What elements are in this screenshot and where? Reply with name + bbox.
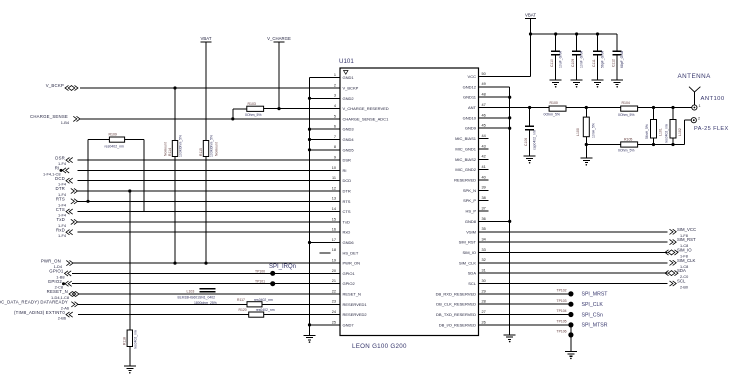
off-page connector (DC_DATA_READY) DATAREADY [0,300,78,311]
svg-text:18: 18 [332,248,336,252]
module U101 LEON-G100/G200 body [340,68,479,336]
svg-text:GND4: GND4 [343,137,355,142]
svg-text:HS_P: HS_P [466,209,477,214]
label ANT100 [701,96,725,102]
pin 30 SCL wire + number + name [468,279,667,286]
svg-text:GND3: GND3 [343,127,355,132]
svg-text:SIM_CLK: SIM_CLK [677,258,696,263]
svg-text:R105: R105 [624,137,632,141]
junction R115 / PWR_ON [204,262,207,265]
pin 2 V_BCKP wire + number + name [80,83,359,90]
pin 20 GPIO1 wire + number + name [72,269,356,276]
ground C110 [550,80,562,88]
svg-text:12: 12 [332,186,336,190]
svg-text:RxD: RxD [56,227,65,232]
svg-text:47: 47 [482,103,486,107]
svg-text:30: 30 [482,279,486,283]
svg-text:res0402_nm: res0402_nm [105,144,125,148]
svg-text:3: 3 [334,94,336,98]
svg-text:28: 28 [482,300,486,304]
off-page connector RI [43,166,69,177]
off-page connector GPIO1 [49,269,71,280]
wire R118 to ground [129,347,131,366]
svg-text:1-F4: 1-F4 [58,233,67,238]
svg-text:13: 13 [332,197,336,201]
svg-text:RI: RI [55,166,60,171]
svg-text:GND7: GND7 [343,322,355,327]
capacitor C110 VCC decoupling [550,34,562,80]
resistor R117 (res0402_nm on RESERVED1) [237,298,273,307]
off-page connector DCD [55,176,73,187]
wire L100 to ground [585,145,587,158]
wire V_CHARGE down to pin 4 net [278,42,280,109]
junction R103 / CHARGE_SENSE [231,117,234,120]
svg-text:SDA: SDA [468,271,477,276]
pin 18 HS_DET wire + number + name [320,248,359,255]
svg-text:GPIO2: GPIO2 [48,279,63,284]
svg-text:TP103: TP103 [557,299,567,303]
svg-text:0Ohm_5%: 0Ohm_5% [245,113,262,117]
junction VBAT / VCC rail [529,32,532,35]
svg-text:38: 38 [482,196,486,200]
pin 37 HS_P wire + number + name [466,206,489,213]
svg-text:43: 43 [482,144,486,148]
off-page connector DTR [56,186,78,197]
capacitor C111 VCC decoupling [592,34,604,80]
power V_CHARGE [267,36,291,42]
pin 3 GND2 wire + number + name [310,94,355,101]
svg-text:C110: C110 [550,59,554,67]
pin 11 DCD wire + number + name [78,176,352,183]
svg-text:RESET_N: RESET_N [343,292,362,297]
svg-text:L102: L102 [678,128,682,136]
wire V_BCKP drop to R114 [174,88,176,141]
svg-text:TP101: TP101 [255,280,265,284]
inductor L100 (shunt to ground) [576,108,596,145]
connector ANT100 pin 2 [691,116,700,122]
junction left rail pin 3 [308,97,311,100]
svg-text:10uF_GNA: 10uF_GNA [559,50,563,68]
svg-text:DCD: DCD [343,178,352,183]
svg-text:DSR: DSR [343,158,352,163]
svg-text:R100: R100 [550,101,558,105]
wire TP105 to TP106 to ground [570,325,572,352]
pin 5 CHARGE_SENSE_ADC1 wire + number + name [80,114,389,121]
pin 46 GND10 wire + number + name [463,113,510,120]
value label LEON G100 G200 [352,343,407,350]
pin 17 GND6 wire + number + name [310,238,355,245]
off-page connector CHARGE_SENSE [30,114,80,125]
svg-text:45: 45 [482,124,486,128]
svg-text:RESERVED: RESERVED [454,178,476,183]
ground C112 [611,80,623,88]
svg-text:RI: RI [343,168,347,173]
off-page connector SDA [665,268,688,279]
svg-text:RESERVED1: RESERVED1 [343,302,368,307]
svg-text:25: 25 [332,320,336,324]
svg-text:R114: R114 [168,148,172,156]
svg-text:GND1: GND1 [343,75,355,80]
off-page connector GPIO2 [48,279,72,290]
power VBAT (left) [201,36,212,42]
junction rail / C111 [596,32,599,35]
svg-text:56pF_GNA: 56pF_GNA [600,50,604,68]
svg-text:MIC_GND2: MIC_GND2 [455,167,476,172]
svg-text:32: 32 [482,258,486,262]
svg-text:RESET_N: RESET_N [47,289,68,294]
junction left rail pin 8 [308,148,311,151]
svg-text:1: 1 [699,104,701,108]
svg-text:1-B4: 1-B4 [61,120,70,125]
svg-text:res0402_nm: res0402_nm [254,298,273,302]
pin 50 VCC wire + number + name [468,72,531,79]
label U101 [339,58,354,65]
pin 40 RESERVED wire + number + name [454,175,489,182]
svg-text:PWR_ON: PWR_ON [343,261,361,266]
junction right rail pin 48 [508,96,511,99]
svg-text:R109: R109 [109,133,117,137]
junction R109 / RTS [86,200,89,203]
test point TP106 (ground) [557,329,574,337]
off-page connector SIM_IO [665,247,692,258]
svg-text:CHARGE_SENSE_ADC1: CHARGE_SENSE_ADC1 [343,116,390,121]
svg-text:V_CHARGE: V_CHARGE [267,36,291,41]
pin 1 GND1 wire + number + name [310,73,355,80]
pin 35 VSIM wire + number + name [466,227,667,234]
svg-text:2-B0: 2-B0 [680,286,688,290]
resistor R100 (series ANT) [544,101,567,117]
pin 24 RESERVED2 wire + number + name [78,310,367,317]
svg-text:100KOhm_5%: 100KOhm_5% [210,135,214,157]
pin 31 SDA wire + number + name [468,269,668,276]
pin 41 MIC_GND2 wire + number + name [455,165,488,172]
svg-text:17: 17 [332,238,336,242]
off-page connector PWR_ON [41,258,73,269]
off-page connector CTS [56,207,73,218]
svg-text:GPIO1: GPIO1 [49,269,64,274]
svg-text:0Ohm_5%: 0Ohm_5% [618,148,635,152]
svg-text:GND5: GND5 [343,147,355,152]
resistor R114 (not mounted 100K pull-up PWR_ON to V_BCKP) [164,135,183,157]
svg-text:res0402_nm: res0402_nm [664,124,668,143]
svg-text:R103: R103 [248,102,256,106]
pin 45 GND9 wire + number + name [465,124,510,131]
svg-text:GPIO1: GPIO1 [343,271,356,276]
svg-text:ANT: ANT [468,105,477,110]
svg-text:R104: R104 [622,101,630,105]
svg-text:10nF_GNA: 10nF_GNA [579,50,583,68]
svg-text:23: 23 [332,300,336,304]
svg-text:SCL: SCL [468,281,477,286]
svg-text:VCC: VCC [468,74,477,79]
svg-text:37: 37 [482,206,486,210]
resistor R104 (series ANT top path) [618,101,638,117]
junction L100 / bottom path [585,143,588,146]
svg-text:14: 14 [332,207,336,211]
svg-text:VSIM: VSIM [466,229,476,234]
svg-text:2-B6: 2-B6 [58,316,66,321]
pin 26 DB_I/O_RESERVED wire + number + name [439,320,571,327]
svg-text:1800ohm_25%: 1800ohm_25% [194,301,217,305]
svg-text:CTS: CTS [343,209,351,214]
svg-text:24: 24 [332,310,336,314]
svg-text:L100: L100 [576,128,580,136]
junction right rail pin 45 [508,127,511,130]
pin 21 GPIO2 wire + number + name [72,279,356,286]
ground L100 [580,158,592,166]
svg-text:CHARGE_SENSE: CHARGE_SENSE [30,114,68,119]
svg-text:SIM_RST: SIM_RST [459,240,477,245]
svg-text:100KOhm_5%: 100KOhm_5% [179,135,183,157]
svg-text:0Ohm_5%: 0Ohm_5% [544,112,561,116]
junction R114 / PWR_ON [173,262,176,265]
svg-text:68pF_GNA: 68pF_GNA [620,50,624,68]
svg-text:11: 11 [332,176,336,180]
junction right rail pin 36 [508,220,511,223]
junction rail / C109 [575,32,578,35]
svg-text:GPIO2: GPIO2 [343,281,356,286]
svg-text:SIM_CLK: SIM_CLK [459,260,476,265]
pin 36 GND8 wire + number + name [465,217,510,224]
resistor R105 (series ANT bottom path) [618,137,638,152]
junction rail / C110 [554,32,557,35]
svg-text:22: 22 [332,289,336,293]
svg-text:PWR_ON: PWR_ON [41,258,61,263]
svg-text:MIC_GND1: MIC_GND1 [455,146,476,151]
ground right rail [504,335,516,343]
svg-text:49: 49 [482,82,486,86]
svg-text:GND8: GND8 [465,219,477,224]
wire ANT top path to R104 [586,107,620,109]
wire DTR drop to R118 [129,191,131,330]
pin 10 RI wire + number + name [78,166,347,173]
pin 25 GND7 wire + number + name [310,320,355,327]
svg-text:10nH_5%: 10nH_5% [592,123,596,138]
off-page connector RxD [56,227,73,238]
wire right GND rail (pins 49,48,46,45,36) [509,87,511,335]
svg-text:cap0402_nm: cap0402_nm [533,130,537,150]
svg-text:SPK_N: SPK_N [463,188,476,193]
pin 14 CTS wire + number + name [78,207,351,214]
pin 23 RESERVED1 wire + number + name [78,300,367,307]
svg-text:ANTENNA: ANTENNA [678,73,712,80]
svg-text:2: 2 [334,83,336,87]
svg-text:BLM18HG601SN1_0402: BLM18HG601SN1_0402 [178,295,216,299]
pin 47 ANT wire + number + name [468,103,549,110]
off-page connector SIM_RST [670,237,696,248]
junction bottom path / L102 [671,143,674,146]
svg-text:(DC_DATA_READY) DATAREADY: (DC_DATA_READY) DATAREADY [0,300,68,305]
svg-text:16: 16 [332,228,336,232]
svg-text:SDA: SDA [677,268,686,273]
svg-text:TP100: TP100 [255,269,265,273]
label SPI_IRQn [269,264,296,270]
off-page connector SIM_CLK [670,258,696,269]
svg-text:res0402_nm: res0402_nm [256,308,275,312]
test point TP102 (SPI_MRST) [557,289,609,298]
resistor R109 (RTS to CTS, res0402_nm) [105,133,125,149]
wire R114 to PWR_ON [174,157,176,264]
pin 22 RESET_N wire + number + name [79,289,361,296]
svg-text:V_CHARGE_RESERVED: V_CHARGE_RESERVED [343,106,389,111]
svg-text:R118: R118 [123,337,127,345]
pin 27 DB_TXD_RESERVED wire + number + name [436,310,571,317]
junction left rail pin 7 [308,138,311,141]
svg-text:21: 21 [332,279,336,283]
ground R118 [124,366,136,374]
off-page connector RTS [56,197,78,208]
pin 28 DB_CLK_RESERVED wire + number + name [436,300,571,307]
svg-text:2: 2 [698,116,700,120]
svg-text:res0402_nm: res0402_nm [133,330,137,349]
svg-text:SIM_VCC: SIM_VCC [677,227,696,232]
svg-text:GND12: GND12 [463,84,477,89]
svg-text:8: 8 [334,145,336,149]
svg-text:9: 9 [334,156,336,160]
svg-text:C112: C112 [612,59,616,67]
svg-text:SPI_MRST: SPI_MRST [582,292,609,298]
capacitor C112 VCC decoupling [612,34,624,80]
test point TP103 (SPI_CLK) [557,299,604,308]
svg-text:TP106: TP106 [557,329,567,333]
wire left GND rail (pins 1,3,6,7,8,17,25) [309,78,311,336]
svg-text:10: 10 [332,166,336,170]
pin 16 RxD wire + number + name [78,228,351,235]
off-page connector DSR [55,155,72,166]
svg-text:SPI_CLK: SPI_CLK [582,302,604,308]
svg-text:RxD: RxD [343,230,351,235]
junction left rail pin 25 [308,323,311,326]
svg-text:LEON G100 G200: LEON G100 G200 [352,343,407,350]
svg-text:Nomount: Nomount [215,142,219,156]
svg-text:R115: R115 [199,148,203,156]
svg-text:C111: C111 [592,59,596,67]
svg-text:35: 35 [482,227,486,231]
svg-text:SIM_IO: SIM_IO [462,250,476,255]
svg-text:ANT100: ANT100 [701,96,725,102]
junction left rail pin 6 [308,128,311,131]
pin 13 RTS wire + number + name [78,197,351,204]
capacitor C109 VCC decoupling [571,34,583,80]
svg-text:26: 26 [482,320,486,324]
svg-text:CTS: CTS [56,207,65,212]
svg-text:GND11: GND11 [463,95,477,100]
svg-text:C106: C106 [524,138,528,146]
pin 9 DSR wire + number + name [78,156,352,163]
off-page connector (TIM8_ADIN3) EXTINT0 [14,310,73,321]
svg-text:R117: R117 [237,298,245,302]
ground TP106 [565,352,577,360]
svg-text:TP104: TP104 [557,309,567,313]
ferrite bead L103 on RESET_N [178,289,217,305]
svg-text:DCD: DCD [55,176,65,181]
wire R109 left lead to RTS [88,140,109,202]
junction bottom path / L101 [652,143,655,146]
svg-text:(TIM8_ADIN3) EXTINT0: (TIM8_ADIN3) EXTINT0 [14,310,65,315]
svg-text:4: 4 [334,104,336,108]
svg-text:SCL: SCL [677,279,686,284]
svg-text:V_BCKP: V_BCKP [343,86,359,91]
svg-text:SPK_P: SPK_P [463,198,476,203]
junction ANT / L100 [585,106,588,109]
pin 44 MIC_BIAS1 wire + number + name [455,134,489,141]
svg-text:L103: L103 [187,289,195,293]
svg-text:SIM_RST: SIM_RST [677,237,696,242]
svg-text:DSR: DSR [55,155,65,160]
pin 32 SIM_CLK wire + number + name [459,258,668,265]
svg-text:GND10: GND10 [463,115,477,120]
svg-text:15: 15 [332,217,336,221]
svg-text:29: 29 [482,289,486,293]
svg-text:6: 6 [334,125,336,129]
svg-text:27: 27 [482,310,486,314]
wire ANT node after R100 [566,107,586,109]
wire ANT bottom path left [586,144,620,146]
wire VBAT decoupling rail [531,33,618,35]
svg-text:TxD: TxD [56,217,65,222]
svg-text:48: 48 [482,93,486,97]
pin 12 DTR wire + number + name [78,186,351,193]
wire R115 to PWR_ON [205,157,207,264]
svg-text:GND9: GND9 [465,126,477,131]
svg-text:C109: C109 [571,59,575,67]
label ANTENNA [678,73,712,80]
pin 49 GND12 wire + number + name [463,82,510,89]
ground left rail [304,335,316,343]
pin 33 SIM_IO wire + number + name [462,248,667,255]
svg-text:GND6: GND6 [343,240,355,245]
svg-text:DB_CLK_RESERVED: DB_CLK_RESERVED [436,302,476,307]
wire R105 to ANT100 pin 2 [638,120,691,144]
off-page connector V_BCKP [46,83,78,90]
svg-text:RTS: RTS [56,197,65,202]
svg-text:DB_I/O_RESERVED: DB_I/O_RESERVED [439,322,476,327]
svg-text:R120: R120 [239,308,247,312]
inductor L102 (not mounted) [664,108,682,145]
off-page connector TxD [56,217,77,228]
power VBAT (top right) [525,12,536,18]
test point TP101 on GPIO2 [255,280,275,287]
wire R104 to ANT100 pin 1 [638,107,692,109]
svg-text:40: 40 [482,175,486,179]
pin 29 DB_RXD_RESERVED wire + number + name [436,289,571,296]
svg-text:56nH_5%: 56nH_5% [645,124,649,139]
junction DTR / R118 drop [128,189,131,192]
junction left rail pin 17 [308,241,311,244]
pin 43 MIC_GND1 wire + number + name [455,144,488,151]
svg-text:VBAT: VBAT [525,12,536,17]
resistor R118 (DTR pull-down) [123,330,138,349]
svg-text:SPI_MTSR: SPI_MTSR [582,323,608,329]
junction right rail pin 46 [508,116,511,119]
svg-text:0Ohm_5%: 0Ohm_5% [618,113,635,117]
pin 39 SPK_N wire + number + name [463,186,489,193]
svg-text:SPI_IRQn: SPI_IRQn [269,264,296,270]
pin 15 TxD wire + number + name [78,217,350,224]
svg-text:7: 7 [334,135,336,139]
svg-text:34: 34 [482,238,486,242]
svg-text:44: 44 [482,134,486,138]
resistor R115 (not mounted 100K pull-up PWR_ON to VBAT) [199,135,219,157]
svg-text:TP105: TP105 [557,320,567,324]
ground C109 [571,80,583,88]
label PA-25 FLEX [694,126,729,132]
capacitor C106 (ANT shunt, cap0402_nm) [524,108,537,156]
pin 8 GND5 wire + number + name [310,145,355,152]
svg-text:36: 36 [482,217,486,221]
ground C111 [592,80,604,88]
pin 4 V_CHARGE_RESERVED wire + number + name [264,104,389,111]
